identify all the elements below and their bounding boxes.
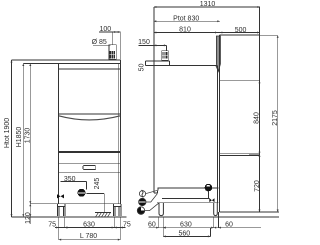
svg-text:630: 630 (180, 222, 192, 229)
dimension line Htot 1900 (11, 60, 13, 217)
right view: 2175 dim line (260, 35, 278, 212)
svg-text:50: 50 (139, 63, 146, 71)
right view: front wall/extension (153, 7, 155, 193)
arrows 1730 (29, 64, 31, 67)
arrows 840 (259, 81, 261, 84)
left view: left foot (57, 204, 65, 216)
left view: machine top line (Htot level) (12, 59, 121, 61)
svg-text:350: 350 (64, 176, 76, 183)
svg-text:60: 60 (148, 222, 156, 229)
right view: bottom dim row 60/630/60 (149, 227, 262, 229)
svg-text:Ptot 830: Ptot 830 (173, 15, 199, 22)
left view: machine right wall inner (117, 64, 119, 204)
left view: control band top line (59, 162, 121, 164)
right view: dim line Ptot 830 (154, 20, 220, 22)
dim Ø85 underline (93, 44, 111, 46)
left view: second top line (H1850 level) (23, 63, 120, 65)
left view: right foot (113, 204, 121, 216)
arrows Htot (11, 60, 13, 63)
left view: ground line (12, 216, 127, 218)
ball right view (205, 184, 213, 192)
svg-text:60: 60 (225, 222, 233, 229)
svg-text:Ø 85: Ø 85 (92, 39, 107, 46)
connection symbol c1 electrical (139, 190, 157, 197)
dimension line H1850 (22, 64, 24, 217)
right view: cabinet back (259, 7, 261, 212)
right view: cabinet front line (218, 35, 220, 212)
earth hatch symbol (95, 212, 111, 217)
left view: front rim line (59, 68, 121, 70)
surface to strip junction (216, 65, 218, 70)
bottom dim extensions left view (59, 217, 121, 240)
svg-text:100: 100 (99, 26, 111, 33)
arrows L780 (59, 239, 62, 241)
svg-text:720: 720 (254, 180, 261, 192)
left view: control slot (83, 166, 96, 170)
right view: dim line 810 / 500 (154, 32, 260, 34)
arrows 630 rv (163, 227, 166, 229)
arrows 630 left (65, 227, 68, 229)
svg-text:840: 840 (253, 112, 260, 124)
left view: base line (30, 203, 120, 205)
left view: hood bottom line (59, 113, 121, 115)
bottom dim line row 75/630/75 (55, 227, 126, 229)
right view: ground line (149, 216, 280, 218)
right view: dim 150 line with drop (139, 45, 167, 50)
left view: machine left wall (58, 64, 60, 204)
arrows dim 500 (220, 32, 223, 34)
right view: front step profile (154, 192, 157, 194)
bowtie symbol left view (57, 194, 64, 198)
right wall top extension (119, 32, 121, 60)
right view: dim line 1310 (154, 6, 260, 8)
right view: front leg (159, 203, 163, 216)
connection symbol c2 water (139, 194, 158, 206)
left view: hood bottom curve (59, 116, 121, 120)
arrows dim 1310 (154, 6, 157, 8)
right view: cabinet bottom (219, 211, 259, 213)
right view: 720 tick (249, 153, 260, 155)
dim 100: line and ticks (99, 32, 120, 45)
right view: cabinet top (219, 34, 259, 36)
arrows 75 left (56, 227, 59, 229)
svg-text:500: 500 (235, 27, 247, 34)
arrows dim 100 (113, 31, 116, 33)
arrows 720 (259, 154, 261, 157)
svg-text:Htot 1900: Htot 1900 (4, 118, 11, 148)
right view: duct hatched (162, 51, 168, 61)
right view: tank top line with ball (157, 188, 218, 193)
right view: bottom tick at dims (249, 211, 279, 213)
dimension line 1730 / 120 (29, 64, 31, 225)
arrows 60 right rv (214, 227, 217, 229)
bottom dim line L780 (59, 239, 121, 241)
drain height 245 leader (86, 193, 104, 212)
right view: cabinet shelf (219, 80, 259, 82)
right view: top surface line (154, 64, 217, 66)
svg-text:560: 560 (178, 230, 190, 237)
dim 350 underline (61, 181, 87, 189)
right view: front bar/shelf (145, 61, 169, 66)
arrows 75 right (114, 227, 117, 229)
svg-text:1310: 1310 (200, 1, 216, 8)
arrows 560 (163, 235, 166, 237)
svg-text:150: 150 (138, 39, 150, 46)
right view: gray strip (216, 36, 220, 71)
right view: bottom extensions (159, 212, 219, 228)
bowtie symbol right view with housing box (209, 198, 214, 202)
connection symbol c3 drain (137, 203, 158, 214)
valve stem and pipe right view (162, 191, 209, 198)
svg-text:L 780: L 780 (80, 233, 97, 240)
arrows 120 (29, 204, 31, 207)
left view: control band bottom line (59, 171, 121, 173)
svg-text:2175: 2175 (272, 110, 279, 126)
arrows dim 150 (154, 44, 157, 46)
arrows 2175 (277, 35, 279, 38)
arrows H1850 (22, 64, 24, 67)
arrows dim Ptot (154, 20, 157, 22)
svg-text:75: 75 (123, 222, 131, 229)
svg-text:H1850: H1850 (16, 127, 23, 148)
arrows dim 810 (154, 32, 157, 34)
right view: frame line (157, 202, 218, 204)
svg-text:1730: 1730 (25, 128, 32, 144)
left view: top pipe hatched (drain vent) (109, 45, 116, 60)
right view: rear leg (214, 203, 218, 216)
svg-text:245: 245 (94, 178, 101, 190)
drain ball left view (78, 189, 86, 197)
svg-text:120: 120 (25, 212, 32, 224)
arrows 60 left rv (156, 227, 159, 229)
svg-text:630: 630 (83, 222, 95, 229)
left view: machine right wall outer (119, 60, 121, 204)
left view: door bottom thick line (59, 151, 121, 153)
svg-text:810: 810 (179, 27, 191, 34)
right view: bottom dim 560 (163, 228, 210, 237)
right view: machine back wall (217, 65, 219, 203)
right view: cabinet divider (219, 153, 259, 155)
svg-text:75: 75 (48, 222, 56, 229)
